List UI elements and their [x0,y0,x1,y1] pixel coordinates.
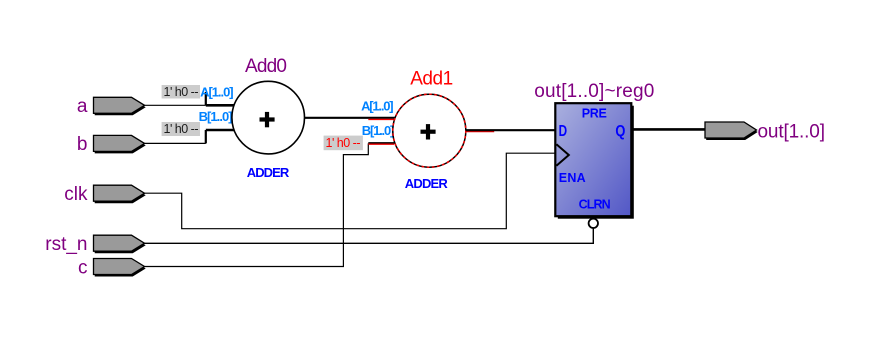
svg-text:Q: Q [615,123,625,140]
wire b to Add0.B junction [145,142,206,144]
register port label ENA [559,171,586,185]
wire c to Add1.B junction [145,143,369,266]
register port label Q [615,123,625,140]
svg-text:rst_n: rst_n [45,234,87,255]
register out[1..0]~reg0 body [555,103,631,216]
input pin rst_n [94,235,146,253]
bus Add0 output to Add1.A [304,117,395,119]
svg-text:D: D [559,123,568,140]
register port label CLRN [579,198,611,212]
pin label c [78,257,88,278]
type label ADDER of Add0 [247,165,290,180]
port label A[1..0] of Add0 [200,84,234,99]
output pin label out[1..0] [758,121,826,142]
svg-text:b: b [77,134,88,155]
port label B[1..0] of Add1 [362,123,395,138]
wire clk to register clock [145,153,556,229]
wire rst_n to register CLRN bubble [145,228,594,243]
Add1 plus symbol [421,124,436,139]
svg-text:Add0: Add0 [245,56,287,77]
register clock chevron [556,144,568,166]
svg-text:ADDER: ADDER [247,165,290,180]
register title out[1..0]~reg0 [534,81,654,102]
instance label Add0 [245,56,287,77]
adder Add1 circle (selected, red) [393,94,466,167]
svg-text:CLRN: CLRN [579,198,611,212]
bus into Add0 port B [206,129,235,132]
red selected stub Add1 output [466,131,495,133]
bus register Q to output pin [632,128,705,131]
type label ADDER of Add1 [405,176,449,191]
svg-text:c: c [78,257,88,278]
pin label clk [64,184,88,205]
adder Add0 circle [232,81,305,154]
svg-text:A[1..0]: A[1..0] [361,99,394,114]
svg-text:clk: clk [64,184,88,205]
pin label rst_n [45,234,87,255]
output pin out[1..0] [705,122,758,140]
svg-text:1' h0 --: 1' h0 -- [164,85,199,99]
constant 1'h0 label for Add0.B [162,122,200,136]
port label A[1..0] of Add1 [361,99,394,114]
svg-text:out[1..0]~reg0: out[1..0]~reg0 [534,81,654,102]
svg-text:ENA: ENA [559,171,586,185]
register CLRN bubble [589,219,598,228]
svg-text:B[1..0]: B[1..0] [362,123,395,138]
input pin a [94,97,146,115]
svg-text:PRE: PRE [582,107,607,121]
constant 1'h0 label for Add0.A [162,85,200,99]
wire a to Add0.A junction [145,104,206,106]
wire riser b to bus [205,130,207,143]
svg-text:1' h0 --: 1' h0 -- [164,122,199,136]
red selected stub Add1.A [368,118,394,120]
constant 1'h0 label for Add1.B (selected red) [324,136,363,151]
input pin c [94,259,146,277]
pin label b [77,134,88,155]
input pin b [94,135,146,153]
svg-text:out[1..0]: out[1..0] [758,121,826,142]
instance label Add1 (selected, red) [410,69,453,90]
svg-text:ADDER: ADDER [405,176,449,191]
pin label a [77,96,88,117]
Add0 plus symbol [260,112,275,127]
red selected stub Add1.B [368,143,394,144]
svg-text:1' h0 --: 1' h0 -- [326,136,361,150]
constant stub wire to Add0.A bus [205,92,207,105]
svg-text:A[1..0]: A[1..0] [200,84,234,99]
bus into Add0 port A [206,104,235,107]
svg-text:B[1..0]: B[1..0] [199,109,233,124]
input pin clk [94,185,146,203]
bus Add1 output to register D [466,129,556,131]
register port label D [559,123,568,140]
register out[1..0]~reg0 shadow [558,106,634,219]
svg-text:a: a [77,96,88,117]
port label B[1..0] of Add0 [199,109,233,124]
register port label PRE [582,107,607,121]
svg-text:Add1: Add1 [410,69,453,90]
